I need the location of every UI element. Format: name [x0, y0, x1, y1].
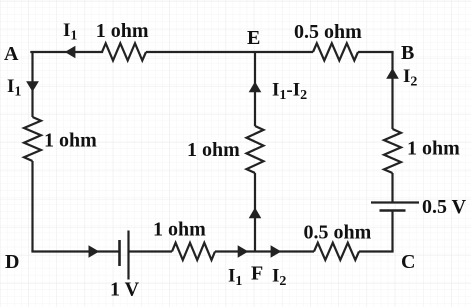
svg-text:1 ohm: 1 ohm — [96, 20, 149, 42]
svg-text:F: F — [251, 263, 263, 285]
svg-text:1 V: 1 V — [110, 279, 140, 301]
svg-text:1 ohm: 1 ohm — [407, 138, 460, 160]
battery B1 0.5V long plate — [371, 201, 419, 203]
svg-text:E: E — [247, 27, 260, 49]
svg-text:0.5 V: 0.5 V — [422, 196, 467, 218]
svg-text:A: A — [4, 43, 19, 65]
svg-text:0.5 ohm: 0.5 ohm — [294, 21, 362, 43]
resistor R2 0.5 ohm (top-right, between E and B) — [313, 43, 358, 60]
wire left branch upper (A down) — [31, 52, 33, 117]
resistor R5 1 ohm (right branch) — [384, 129, 401, 173]
wire R7 to C — [359, 250, 394, 252]
arrow I1 down (left branch) — [26, 81, 39, 92]
arrow right (bottom wire near D) — [89, 245, 100, 258]
arrow I2 right (bottom, after F) — [271, 245, 282, 258]
resistor R6 1 ohm (bottom-left) — [172, 243, 215, 260]
svg-text:B: B — [401, 42, 414, 64]
wire F to R7 — [255, 250, 314, 252]
wire top A-E segment — [31, 51, 102, 53]
battery B1 0.5V short plate — [380, 209, 406, 212]
wire R2 to B corner — [358, 51, 394, 53]
battery B2 1V long plate — [127, 231, 129, 280]
wire E to 0.5ohm — [255, 51, 313, 53]
arrow I1-I2 up (middle branch near E) — [249, 82, 262, 93]
svg-text:0.5 ohm: 0.5 ohm — [304, 222, 372, 244]
arrow up (middle branch near F) — [249, 208, 262, 219]
svg-text:1 ohm: 1 ohm — [44, 130, 97, 152]
svg-text:1 ohm: 1 ohm — [153, 219, 206, 241]
resistor R4 1 ohm (middle branch) — [247, 126, 264, 173]
wire left branch lower (to D) — [31, 161, 33, 252]
svg-text:1 ohm: 1 ohm — [187, 139, 240, 161]
battery B2 1V short plate — [118, 240, 121, 266]
arrow I1 left (top wire) — [65, 46, 76, 59]
wire R1 to E — [146, 51, 255, 53]
wire middle branch lower (to F) — [254, 173, 256, 252]
resistor R3 1 ohm (left branch) — [24, 117, 41, 161]
wire battery to C — [391, 212, 393, 252]
wire battery to R6 — [129, 250, 173, 252]
wire bottom D to battery — [31, 250, 119, 252]
svg-text:C: C — [401, 251, 415, 273]
resistor R1 1 ohm (top-left, between A and E) — [102, 43, 146, 60]
wire R6 to F — [215, 250, 255, 252]
svg-text:D: D — [5, 251, 19, 273]
wire right branch upper (B down) — [391, 52, 393, 129]
arrow I1 right (bottom, before F) — [238, 245, 249, 258]
wire middle branch upper (E down) — [254, 52, 256, 126]
resistor R7 0.5 ohm (bottom-right) — [314, 243, 359, 260]
wire R5 to battery — [391, 173, 393, 202]
arrow I2 up (right branch) — [386, 68, 399, 79]
